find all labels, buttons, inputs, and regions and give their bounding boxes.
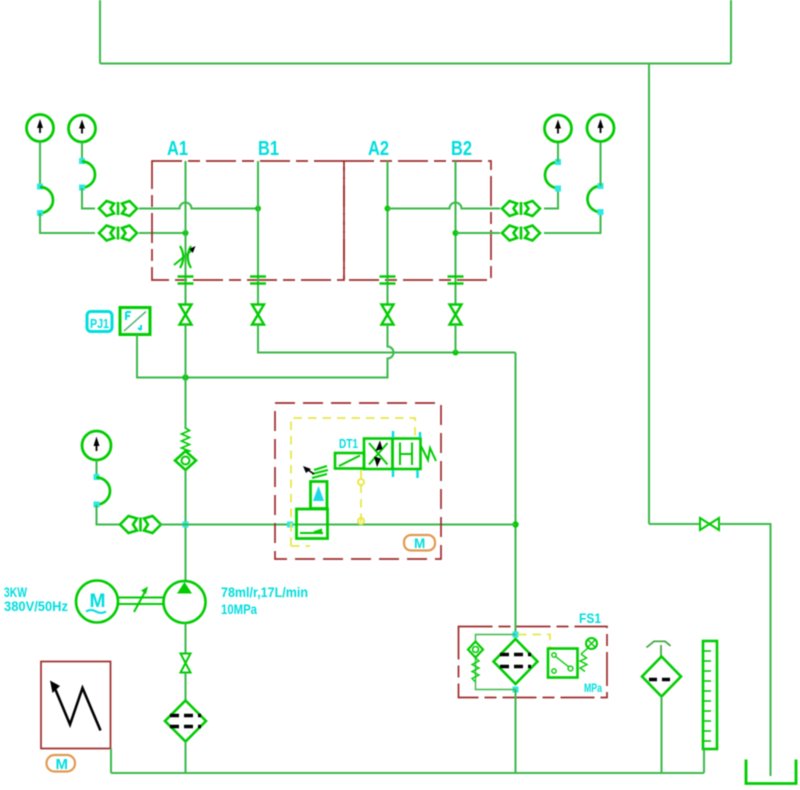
- wire PG5 to coupling QC5: [97, 505, 120, 525]
- svg-text:M: M: [414, 536, 425, 551]
- wire tank line up to level gauge: [703, 749, 705, 773]
- wire A2 valve down with jog around B-line: [137, 325, 394, 378]
- wire right main drop: [648, 64, 650, 525]
- clogging switch box: [548, 649, 578, 678]
- quick coupling QC1: [99, 201, 137, 216]
- bypass spring: [472, 658, 479, 682]
- valve block red dashed box: [275, 403, 441, 559]
- wire valve to strainer: [185, 673, 187, 702]
- pilot yellow bottom segment: [291, 545, 310, 547]
- pump P1: [164, 581, 206, 623]
- svg-text:MPa: MPa: [584, 681, 602, 695]
- svg-text:B1: B1: [258, 138, 279, 160]
- suction shutoff valve: [181, 654, 191, 673]
- wire right drop to drain valve: [649, 523, 699, 525]
- wire top-left vertical riser: [99, 0, 101, 64]
- svg-text:M: M: [90, 591, 106, 612]
- wire A1 valve down through A-node: [185, 325, 187, 430]
- wire B2 to QC4: [456, 232, 501, 234]
- svg-text:DT1: DT1: [339, 436, 358, 451]
- wire QC4 to PG4: [544, 213, 601, 234]
- wire B1 vertical in manifold: [257, 161, 259, 304]
- port flange A2: [380, 277, 396, 284]
- check valve on pump line: [175, 451, 196, 470]
- tank symbol: [746, 760, 796, 784]
- directional valve body square 1 (crossed arrows): [364, 439, 393, 470]
- node cyan filter bottom: [513, 687, 519, 693]
- wire pressure switch drop: [137, 335, 186, 378]
- wire A2 to QC3 with bump over B2: [388, 203, 501, 209]
- wire PG4 drop: [600, 142, 602, 186]
- shutoff valve V4 on B2: [450, 305, 462, 325]
- wire A1 below throttle: [185, 268, 187, 304]
- quick coupling QC2: [99, 226, 137, 241]
- solenoid coil DT1: [335, 453, 364, 469]
- suction filter F2 diamond: [642, 657, 681, 697]
- motor M1: [76, 581, 118, 623]
- quick coupling QC4: [502, 226, 540, 241]
- node cyan hose4 top: [598, 183, 604, 189]
- wire center pressure line: [160, 524, 516, 526]
- node cyan PG1-hose: [37, 184, 43, 190]
- directional valve body square 2 (blocked H): [393, 439, 421, 470]
- bypass check valve: [468, 642, 483, 658]
- node B1 junction: [255, 206, 261, 212]
- indicator lamp: [581, 638, 597, 654]
- shutoff valve V1 on A1: [180, 305, 192, 325]
- wire B collector drop to return: [515, 353, 517, 640]
- hose loop PG3: [545, 162, 558, 188]
- wire B2 vertical in manifold: [455, 161, 457, 304]
- wire pump suction down: [185, 623, 187, 653]
- node cyan pump line / center line: [183, 522, 189, 528]
- svg-text:78ml/r,17L/min: 78ml/r,17L/min: [221, 584, 308, 600]
- relief valve upper box with cyan triangle: [311, 482, 328, 509]
- wire PG2 drop: [81, 142, 83, 161]
- node B collector at B2: [453, 350, 459, 356]
- svg-text:A2: A2: [368, 138, 389, 160]
- cyan port ticks DT1: [393, 431, 420, 478]
- shutoff valve V2 on B1: [252, 305, 264, 325]
- wire strainer to tank line: [185, 742, 187, 774]
- node cyan hose5 bottom: [94, 502, 100, 508]
- relief valve spring and arrow: [303, 466, 328, 478]
- svg-text:380V/50Hz: 380V/50Hz: [4, 598, 68, 614]
- pilot yellow to clog switch: [518, 635, 550, 649]
- wire heater box to tank line: [110, 749, 112, 774]
- wire B2 valve down: [455, 325, 457, 353]
- quick coupling QC5: [120, 516, 161, 533]
- hose loop PG4: [588, 186, 601, 212]
- suction strainer F1: [165, 701, 206, 742]
- wire top-right vertical riser: [730, 0, 732, 64]
- svg-text:A1: A1: [167, 138, 188, 160]
- wire top header horizontal: [100, 63, 731, 65]
- switch spring: [580, 654, 587, 672]
- label M (valve block): [404, 535, 435, 551]
- quick coupling QC3: [502, 201, 540, 216]
- node B2 junction: [453, 230, 459, 236]
- wire filter F2 to tank line: [661, 697, 663, 774]
- return filter red dashed box: [459, 627, 608, 698]
- relief valve lower box: [297, 509, 328, 539]
- port flange A1: [178, 277, 194, 284]
- motor-pump shaft: [118, 587, 163, 613]
- shutoff valve V3 on A2: [382, 305, 394, 325]
- pilot yellow dashed box: [291, 418, 415, 546]
- label PJ1: [87, 312, 112, 332]
- spring on pump line: [182, 428, 190, 453]
- pressure gauge PG3: [545, 115, 572, 142]
- pressure switch PJ1 symbol: [120, 308, 150, 335]
- manifold block 1 (A1 B1) red dashed: [152, 161, 344, 280]
- wire A1 vertical in manifold: [185, 161, 187, 247]
- wire PG1 to coupling QC2: [40, 213, 95, 233]
- wire QC1 to B1 with bump over A1: [139, 203, 258, 209]
- heater zigzag symbol: [50, 681, 101, 731]
- wire PG1 drop: [39, 142, 41, 187]
- node cyan at relief block inlet: [287, 522, 293, 528]
- node cyan hose5 top: [94, 474, 100, 480]
- svg-text:10MPa: 10MPa: [221, 601, 257, 617]
- pressure gauge PG1: [27, 115, 54, 142]
- node return junction: [512, 521, 518, 527]
- pilot yellow drain line with circles: [358, 470, 364, 524]
- node cyan hose1 bottom: [37, 210, 43, 216]
- node cyan hose4 bottom: [598, 209, 604, 215]
- svg-text:B2: B2: [451, 138, 472, 160]
- wire QC2 to A1: [139, 232, 186, 234]
- node cyan hose3 top: [555, 159, 561, 165]
- return filter FS1 diamond: [494, 639, 538, 684]
- label M (heater): [47, 755, 76, 773]
- wire check valve to pump: [185, 470, 187, 581]
- wire drain valve to tank drop: [719, 524, 771, 776]
- wire tank bottom line: [111, 772, 704, 774]
- pressure gauge PG5: [82, 431, 111, 460]
- hose loop PG2: [82, 162, 95, 188]
- heater box red: [41, 662, 111, 749]
- wire PG2 to coupling QC1: [82, 188, 95, 209]
- pressure gauge PG4: [587, 115, 614, 142]
- node A2 junction: [385, 206, 391, 212]
- node cyan filter top: [513, 632, 519, 638]
- svg-text:M: M: [56, 756, 69, 773]
- wire return filter to tank line: [515, 690, 517, 774]
- level gauge ruler: [703, 641, 717, 749]
- pressure gauge PG2: [69, 115, 96, 142]
- hose loop PG1: [40, 187, 53, 213]
- drain shutoff valve: [700, 518, 719, 530]
- breather arc: [647, 641, 671, 656]
- manifold block 2 (A2 B2) red dashed: [344, 161, 491, 280]
- svg-text:FS1: FS1: [579, 610, 601, 626]
- return spring DT1: [421, 446, 436, 461]
- wire A2 vertical in manifold: [387, 161, 389, 304]
- node cyan PG2-hose: [79, 158, 85, 164]
- port flange B2: [448, 277, 464, 284]
- node cyan hose3 bottom: [555, 186, 561, 192]
- hose loop PG5: [97, 478, 110, 505]
- wire PG5 drop: [96, 460, 98, 477]
- node A collector at A1: [182, 374, 188, 380]
- node cyan hose2 bottom: [79, 185, 85, 191]
- throttle valve on A1: [174, 246, 196, 268]
- node A1 junction: [183, 230, 189, 236]
- wire PG3 drop: [557, 142, 559, 162]
- bypass branch wires: [476, 635, 516, 690]
- svg-text:PJ1: PJ1: [90, 317, 109, 331]
- wire QC3 to PG3: [544, 189, 558, 209]
- wire B1 valve down and across: [258, 325, 516, 353]
- port flange B1: [250, 277, 266, 284]
